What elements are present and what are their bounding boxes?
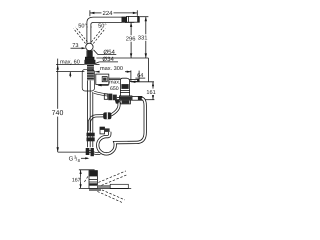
dim 167	[79, 170, 95, 189]
spray head horizontal bar left section	[97, 185, 110, 188]
svg-text:740: 740	[52, 110, 64, 117]
svg-text:224: 224	[102, 10, 113, 17]
dim 740	[57, 59, 59, 152]
spray fan dashes up	[98, 171, 128, 186]
hose connector wedge	[115, 99, 120, 103]
svg-text:64: 64	[137, 73, 143, 79]
spray fan dashes down	[97, 190, 125, 203]
deck top line	[56, 64, 84, 66]
dim 224 line	[90, 10, 137, 16]
lever body below ball	[87, 50, 93, 57]
extension line E2	[147, 58, 149, 82]
svg-text:G: G	[69, 156, 74, 163]
shadow under bar	[89, 189, 101, 191]
spray head vertical	[89, 171, 97, 189]
supply hoses	[88, 81, 93, 148]
side nozzle	[132, 96, 142, 100]
deck bottom line	[56, 71, 84, 73]
spout joint ring	[122, 17, 127, 23]
control box	[96, 74, 109, 84]
side body	[119, 78, 131, 104]
svg-text:50°: 50°	[98, 24, 106, 30]
extension 161 bottom	[145, 99, 155, 101]
supply nut left	[86, 148, 90, 155]
svg-text:max.: max.	[109, 80, 120, 86]
extension line E1	[138, 71, 140, 82]
label diameter 54	[94, 50, 117, 55]
supply connector block	[87, 133, 95, 137]
chain link line	[117, 96, 121, 98]
hose end to supply fitting	[88, 151, 100, 153]
spout pipe	[87, 17, 127, 28]
svg-text:50°: 50°	[78, 24, 86, 30]
hose weight	[103, 112, 111, 119]
supply nut right	[91, 148, 94, 156]
svg-text:Ø54: Ø54	[103, 49, 115, 56]
dim max300	[95, 71, 131, 73]
side spout stub	[130, 79, 140, 82]
dim 331	[140, 17, 148, 58]
side deck lines	[109, 78, 121, 79]
chain fitting 1	[104, 94, 108, 99]
dim 73	[71, 47, 86, 49]
bottom reference line 740	[58, 151, 88, 153]
dim 64	[131, 78, 154, 83]
weight hose upper	[110, 100, 119, 115]
chain fitting 2	[108, 94, 112, 101]
svg-text:650: 650	[110, 86, 119, 92]
base top reference line	[96, 57, 148, 59]
spray fan dashes left	[84, 175, 89, 182]
extension line E0	[130, 70, 132, 81]
hose from shank to chain	[94, 92, 108, 95]
swivel dashes left	[74, 27, 88, 44]
T fitting	[100, 127, 110, 134]
svg-text:331: 331	[138, 35, 148, 42]
bottom detail ground line	[79, 187, 131, 189]
handle ball	[86, 43, 93, 50]
svg-text:max. 300: max. 300	[100, 66, 123, 72]
riser pipe	[87, 26, 91, 57]
dim max60 arrows	[69, 59, 71, 77]
deck right stub	[95, 64, 99, 66]
weight hose lower	[89, 116, 103, 131]
dim 296	[125, 22, 134, 58]
svg-text:296: 296	[126, 36, 136, 43]
label max650	[97, 80, 120, 92]
label diameter 34	[95, 62, 118, 64]
pullout hose loop	[98, 98, 146, 154]
svg-text:73: 73	[72, 43, 78, 49]
svg-text:167: 167	[72, 177, 81, 183]
dim 161	[152, 82, 154, 100]
spray head horizontal bar right section	[110, 184, 128, 188]
swivel dashes right	[91, 27, 105, 44]
svg-text:max. 60: max. 60	[60, 59, 80, 65]
svg-text:161: 161	[146, 90, 155, 96]
svg-text:Ø34: Ø34	[102, 56, 114, 63]
label max60	[59, 59, 81, 66]
faucet base escutcheon	[85, 57, 94, 60]
chain fitting 3	[113, 95, 117, 101]
label G 3/8	[69, 155, 90, 163]
spray head docked	[127, 16, 140, 22]
base plate dark	[84, 60, 95, 65]
mounting sleeve	[82, 69, 94, 91]
shank threaded	[87, 65, 94, 80]
